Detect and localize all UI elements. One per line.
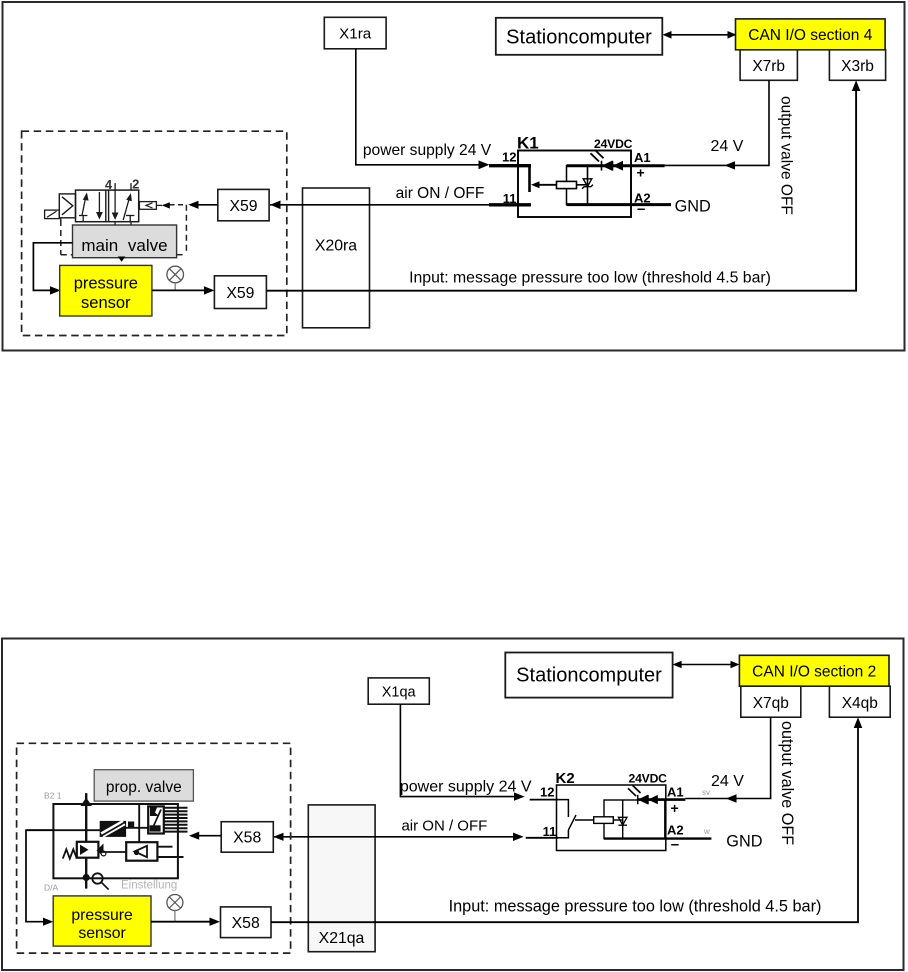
connector box X7rb (740, 50, 797, 81)
svg-text:24 V: 24 V (711, 773, 744, 790)
svg-text:prop. valve: prop. valve (106, 779, 182, 796)
wire prop valve to pressure sensor (left loop, bottom) (26, 830, 53, 926)
svg-text:GND: GND (675, 198, 711, 216)
svg-text:output valve OFF: output valve OFF (778, 96, 795, 215)
svg-text:pressure: pressure (74, 275, 138, 293)
prop valve X-box (100, 821, 125, 836)
label Input: message (bottom) (449, 898, 822, 916)
label GND (top) (675, 198, 711, 216)
valve right solenoid (139, 202, 169, 210)
svg-text:GND: GND (726, 833, 762, 851)
connector box X59 (air) (218, 189, 269, 220)
svg-text:A1: A1 (634, 150, 651, 165)
svg-text:24VDC: 24VDC (629, 772, 668, 786)
wire X58 to prop valve (189, 832, 221, 840)
label 24 V (bottom) (711, 773, 744, 790)
label air ON / OFF (bottom) (401, 818, 487, 835)
svg-text:A1: A1 (667, 785, 684, 800)
connector box X1ra (324, 17, 386, 49)
svg-text:K2: K2 (556, 770, 575, 787)
valve left actuator (45, 194, 76, 222)
wire 24V from X7rb to K1 A1 (665, 80, 770, 169)
connector box X3rb (829, 50, 885, 81)
svg-text:X4qb: X4qb (842, 695, 878, 712)
relay K2 LED (604, 785, 711, 838)
wire main valve to pressure sensor (left loop) (33, 243, 72, 295)
svg-text:pressure: pressure (71, 907, 133, 924)
wire 24V from X7qb to K2 A1 (685, 717, 770, 803)
svg-text:X1qa: X1qa (382, 685, 417, 701)
prop valve top-right box with comb (148, 806, 187, 833)
indicator lamp (top) (167, 266, 184, 290)
svg-text:24 V: 24 V (711, 138, 744, 155)
svg-text:X7rb: X7rb (752, 58, 785, 75)
prop valve faint scan text (44, 791, 177, 893)
wire pressure sensor to X58 (151, 918, 220, 926)
label output valve OFF (bottom, vertical) (778, 721, 796, 845)
svg-text:Stationcomputer: Stationcomputer (506, 27, 652, 49)
wire Stationcomputer-CAN2 double arrow (673, 661, 740, 669)
node X21qa box (308, 805, 375, 952)
label power supply 24 V (bottom) (400, 779, 532, 796)
prop valve connections (26, 805, 148, 890)
relay K1 LED (567, 150, 672, 205)
label Input: message pressure too low (409, 270, 771, 287)
svg-text:output valve OFF: output valve OFF (778, 721, 796, 845)
box pressure sensor (top) (60, 265, 152, 316)
svg-text:2: 2 (132, 177, 139, 192)
wire air ON/OFF from X59 to K1 pin 11 (270, 201, 531, 210)
connector box X59 (sensor) (214, 276, 266, 309)
svg-text:X1ra: X1ra (339, 26, 372, 43)
frame: bottom schematic outer border (2, 639, 904, 971)
svg-text:X7qb: X7qb (753, 695, 789, 712)
svg-text:Stationcomputer: Stationcomputer (516, 665, 662, 687)
box CAN I/O section 4 (736, 19, 886, 50)
svg-text:K1: K1 (517, 134, 539, 153)
svg-text:D/A: D/A (44, 883, 59, 893)
svg-text:4: 4 (105, 177, 113, 192)
svg-text:power supply 24 V: power supply 24 V (363, 142, 492, 159)
svg-text:X58: X58 (232, 915, 260, 932)
dashed enclosure around main valve (61, 205, 187, 255)
svg-text:Input: message pressure too lo: Input: message pressure too low (thresho… (409, 270, 771, 287)
relay K1 (502, 134, 633, 218)
box main valve (73, 225, 177, 262)
wire air ON/OFF X58 to K2 pin 11 (273, 833, 558, 841)
box Stationcomputer (top) (496, 18, 663, 55)
connector box X58 (sensor) (221, 907, 272, 938)
svg-text:12: 12 (540, 785, 554, 800)
svg-text:11: 11 (503, 191, 517, 206)
relay K2 terminal labels (667, 785, 710, 854)
svg-text:sensor: sensor (78, 925, 125, 942)
svg-text:sv: sv (702, 788, 710, 797)
box CAN I/O section 2 (739, 655, 889, 686)
svg-text:–: – (637, 201, 645, 218)
svg-text:air ON / OFF: air ON / OFF (401, 818, 487, 835)
svg-text:–: – (671, 836, 679, 853)
svg-text:air ON / OFF: air ON / OFF (396, 185, 485, 202)
svg-text:+: + (637, 165, 645, 181)
box prop. valve (94, 770, 193, 801)
wire input message to X3rb (266, 80, 860, 290)
svg-text:Einstellung: Einstellung (121, 880, 177, 892)
box pressure sensor (bottom) (53, 896, 151, 946)
svg-text:11: 11 (543, 824, 557, 839)
svg-text:power supply 24 V: power supply 24 V (400, 779, 532, 796)
svg-text:24VDC: 24VDC (594, 137, 633, 151)
prop valve regulator (63, 842, 126, 859)
svg-text:B2 1: B2 1 (44, 791, 62, 801)
relay K1 terminal labels (634, 150, 651, 218)
label output valve OFF (top, vertical) (778, 96, 795, 215)
connector box X7qb (741, 686, 801, 717)
label GND (bottom) (726, 833, 762, 851)
connector box X58 (air) (221, 822, 273, 853)
svg-text:+: + (671, 800, 679, 816)
svg-text:X20ra: X20ra (315, 238, 357, 255)
connector box X1qa (368, 678, 429, 704)
svg-text:CAN I/O section 4: CAN I/O section 4 (748, 27, 872, 44)
svg-text:main valve: main valve (81, 236, 167, 255)
wire power supply from X1ra to K1 pin 12 (356, 49, 531, 169)
wire pressure sensor to X59 (152, 286, 215, 294)
label air ON / OFF (396, 185, 485, 202)
svg-text:X21qa: X21qa (319, 930, 365, 947)
node X20ra box (303, 188, 370, 328)
svg-text:sensor: sensor (81, 294, 131, 312)
relay K1 internals (530, 166, 632, 205)
dashed box around pneumatic module (top) (22, 131, 287, 335)
label power supply 24 V (363, 142, 492, 159)
wire input message to X4qb (271, 717, 862, 922)
valve ports 4 and 2 (105, 177, 140, 226)
prop valve amplifier box (126, 842, 183, 861)
relay K2 (540, 770, 667, 851)
wire power supply from X1qa to K2 pin 12 (400, 704, 558, 801)
valve 5/2 body (76, 190, 139, 222)
svg-text:X59: X59 (229, 198, 257, 215)
svg-text:X59: X59 (226, 285, 254, 302)
connector box X4qb (829, 686, 890, 717)
wire Stationcomputer-CAN double arrow (663, 31, 737, 39)
svg-text:X3rb: X3rb (841, 58, 874, 75)
wire X59 to main valve solenoid (188, 201, 218, 209)
frame: top schematic outer border (3, 2, 905, 351)
svg-text:w: w (703, 827, 710, 836)
relay K2 internals (558, 800, 664, 839)
dashed box around pneumatic module (bottom) (17, 743, 291, 953)
prop valve schematic outer box (53, 793, 177, 889)
box Stationcomputer (bottom) (505, 653, 672, 698)
svg-text:12: 12 (502, 150, 516, 165)
svg-text:CAN I/O section 2: CAN I/O section 2 (752, 664, 876, 681)
indicator lamp (bottom) (167, 895, 183, 922)
svg-text:X58: X58 (233, 830, 261, 847)
svg-text:Input: message pressure too lo: Input: message pressure too low (thresho… (449, 898, 822, 916)
label 24 V (top) (711, 138, 744, 155)
